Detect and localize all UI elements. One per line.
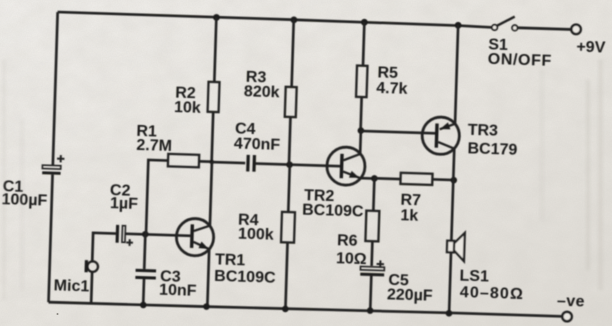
svg-text:10Ω: 10Ω bbox=[336, 250, 367, 268]
node: top rail R3 bbox=[290, 16, 297, 23]
wire: TR2 collector bbox=[359, 131, 362, 154]
wire: TR3 collector down to speaker and ground bbox=[449, 149, 454, 314]
node: speaker ground bbox=[446, 310, 453, 317]
node: R4 top bbox=[286, 161, 293, 168]
wire: R1 to node bbox=[199, 160, 212, 163]
node: top rail TR3 bbox=[455, 22, 462, 29]
transistor TR1 bbox=[176, 218, 214, 256]
svg-text:100k: 100k bbox=[238, 226, 274, 244]
wire: TR3 emitter from rail bbox=[455, 25, 458, 124]
wire: C3 to ground bbox=[142, 279, 145, 305]
svg-text:100µF: 100µF bbox=[1, 191, 47, 209]
capacitor C1 bbox=[42, 155, 64, 175]
node: R7 / TR3 collector bbox=[450, 177, 457, 184]
resistor R7 bbox=[400, 173, 432, 185]
resistor R4 bbox=[281, 212, 295, 243]
svg-text:–ve: –ve bbox=[557, 293, 585, 311]
svg-text:820k: 820k bbox=[244, 83, 280, 101]
wire: rail to R5 bbox=[363, 22, 364, 66]
switch S1 bbox=[492, 16, 518, 31]
wire: C4 to TR2 base bbox=[254, 163, 340, 166]
wire: mic to ground bbox=[90, 272, 94, 303]
wire: TR1 emitter to ground bbox=[207, 249, 209, 306]
resistor R6 bbox=[365, 211, 379, 242]
svg-text:TR3: TR3 bbox=[467, 122, 498, 140]
svg-text:10k: 10k bbox=[174, 99, 201, 117]
terminal +9V bbox=[571, 24, 581, 34]
wire: R1 left leg bbox=[146, 160, 168, 235]
svg-text:2.7M: 2.7M bbox=[136, 137, 172, 155]
wire: R3 to node bbox=[289, 117, 290, 165]
capacitor C4 bbox=[246, 155, 256, 172]
node: emitter junction bbox=[371, 175, 378, 182]
terminal -ve bbox=[562, 312, 572, 322]
node: TR2 collector / TR3 base bbox=[357, 127, 364, 134]
svg-text:4.7k: 4.7k bbox=[376, 80, 408, 98]
wire: left rail upper bbox=[53, 12, 58, 165]
wire: switch to +9V terminal bbox=[518, 28, 572, 30]
svg-text:10nF: 10nF bbox=[159, 282, 197, 300]
capacitor C2 bbox=[115, 225, 133, 246]
svg-text:LS1: LS1 bbox=[459, 268, 489, 286]
resistor R3 bbox=[285, 87, 297, 117]
wire: node to R6 bbox=[373, 178, 374, 210]
wire: node to R7 bbox=[374, 177, 400, 180]
wire: C3 upper bbox=[144, 234, 145, 269]
svg-text:ON/OFF: ON/OFF bbox=[488, 51, 552, 70]
svg-text:470nF: 470nF bbox=[234, 135, 281, 153]
svg-text:BC179: BC179 bbox=[467, 140, 517, 159]
wire: node to C4 bbox=[212, 162, 245, 163]
resistor R2 bbox=[208, 82, 220, 112]
wire: C5 to ground bbox=[370, 275, 371, 311]
microphone Mic1 bbox=[84, 260, 98, 273]
node: top rail R5 bbox=[361, 19, 368, 26]
node: top rail R2 bbox=[213, 14, 220, 21]
wire: top supply rail bbox=[58, 12, 492, 27]
svg-text:BC109C: BC109C bbox=[302, 202, 364, 221]
wire: R5 to node bbox=[361, 97, 362, 131]
node: TR1 collector / C4 bbox=[209, 160, 214, 165]
svg-text:1µF: 1µF bbox=[110, 195, 139, 213]
wire: R4 to ground bbox=[288, 165, 289, 212]
svg-text:40–80Ω: 40–80Ω bbox=[460, 284, 524, 303]
node: C3 ground bbox=[140, 302, 147, 309]
wire: mic to C2 bbox=[92, 233, 116, 262]
wire: TR1 collector bbox=[210, 162, 212, 226]
faint bleed-through ghosts bbox=[2, 60, 603, 300]
svg-text:+9V: +9V bbox=[576, 39, 606, 57]
wire: left rail lower bbox=[49, 175, 53, 303]
wire: TR2 emitter bbox=[360, 177, 374, 180]
wire: bottom ground rail bbox=[49, 300, 563, 318]
capacitor C5 bbox=[360, 260, 384, 277]
transistor TR2 bbox=[326, 147, 365, 186]
svg-text:TR1: TR1 bbox=[215, 251, 246, 269]
node: C5 ground bbox=[367, 307, 374, 314]
node: base junction bbox=[142, 231, 149, 238]
wire: R2 to node bbox=[212, 112, 214, 162]
node: TR1 emitter ground bbox=[203, 303, 210, 310]
wire: node to TR3 base bbox=[361, 131, 435, 133]
node: R4 ground bbox=[282, 306, 289, 313]
stray speck bbox=[57, 313, 59, 315]
resistor R5 bbox=[356, 66, 367, 98]
svg-text:220µF: 220µF bbox=[387, 286, 433, 304]
svg-text:BC109C: BC109C bbox=[214, 268, 276, 287]
transistor TR3 bbox=[422, 117, 460, 155]
wire: C2 to TR1 base bbox=[125, 234, 190, 236]
wire: R7 to TR3 collector bbox=[432, 178, 453, 181]
loudspeaker LS1 bbox=[447, 232, 465, 261]
wire: rail to R3 bbox=[292, 20, 294, 87]
svg-text:Mic1: Mic1 bbox=[53, 277, 89, 295]
svg-text:1k: 1k bbox=[400, 207, 418, 225]
wire: R6 to C5 bbox=[370, 241, 373, 266]
svg-text:R6: R6 bbox=[337, 232, 358, 250]
capacitor C3 bbox=[135, 269, 156, 280]
wire: rail to R2 bbox=[214, 17, 216, 82]
resistor R1 bbox=[168, 154, 199, 167]
